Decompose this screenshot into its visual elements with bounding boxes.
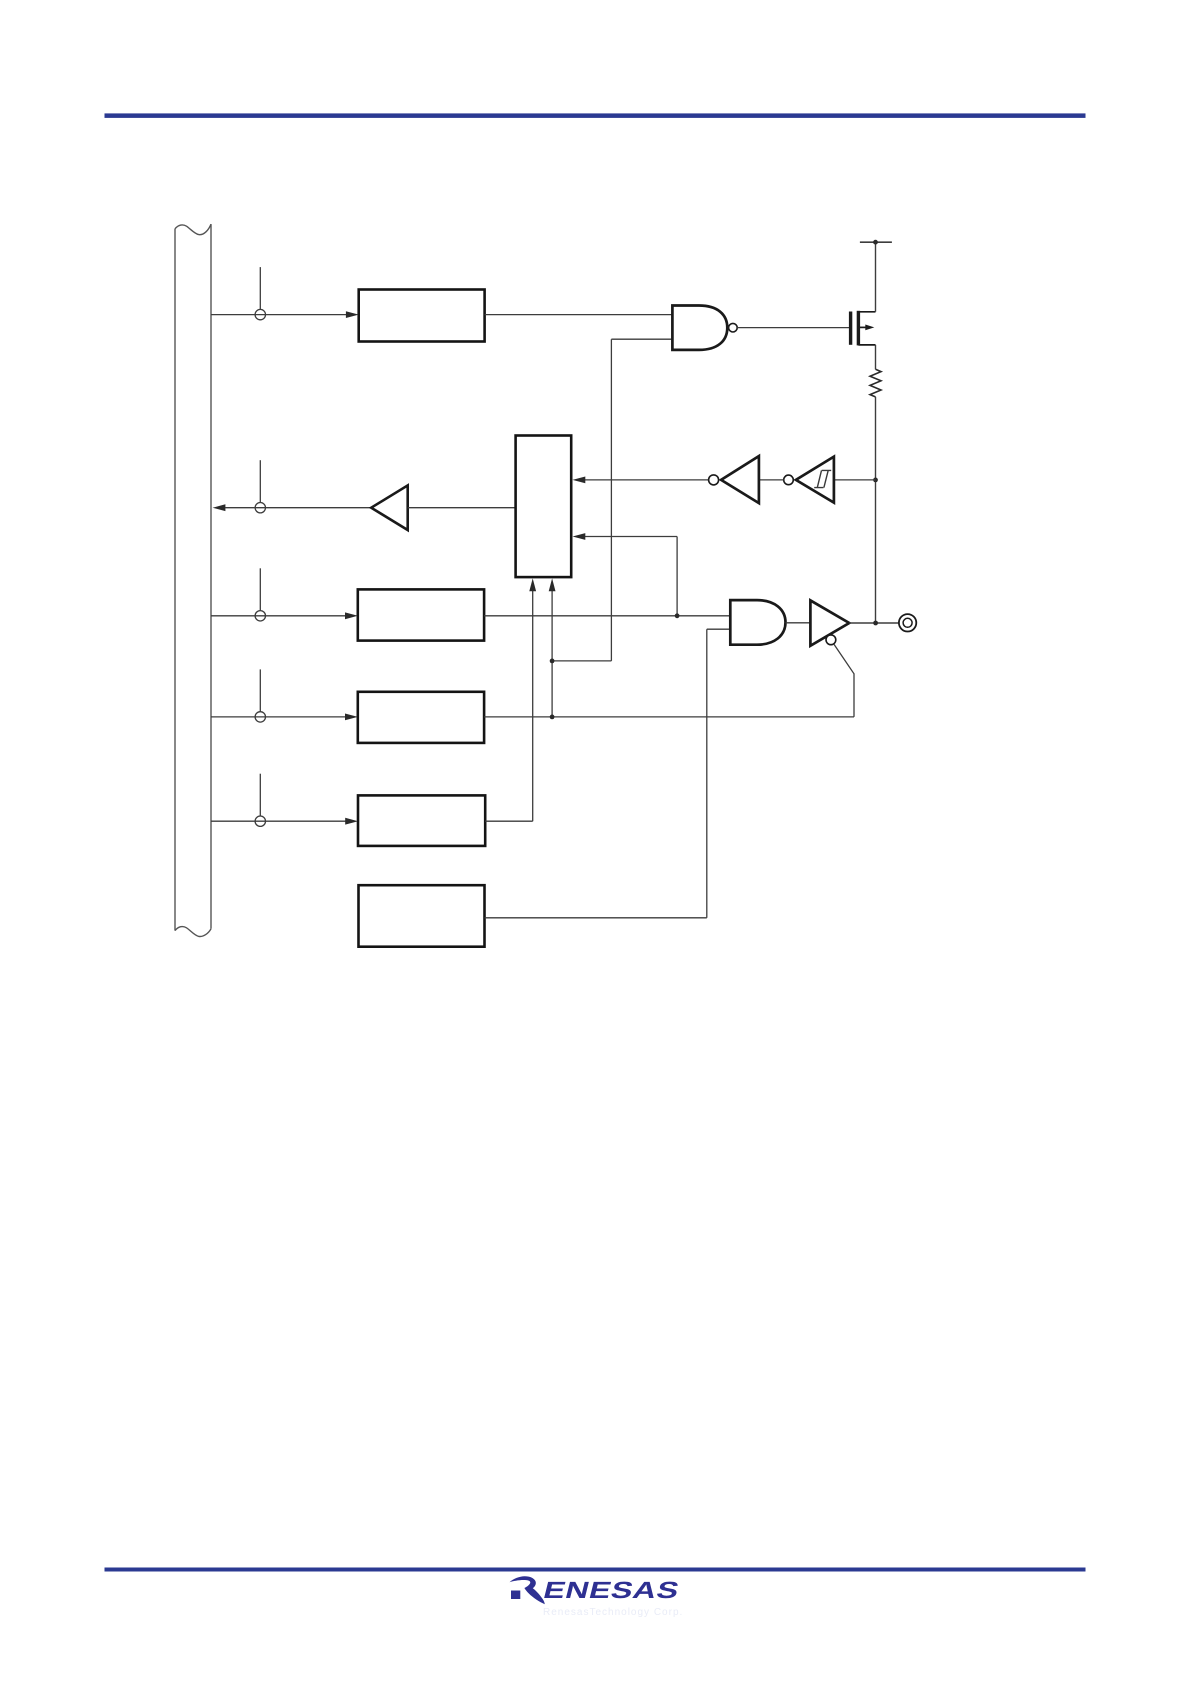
wire mux to read buffer xyxy=(408,507,516,509)
svg-text:ENESAS: ENESAS xyxy=(541,1578,683,1604)
wire NAND to MOSFET gate xyxy=(737,327,849,329)
inverter U4 xyxy=(721,456,759,503)
VCC rail xyxy=(860,241,892,243)
node row1 stub xyxy=(259,267,261,309)
box4 direction register xyxy=(358,692,484,743)
I/O pad pin xyxy=(899,614,916,631)
node row3 circle xyxy=(255,611,265,621)
wire box4 branch to NAND input 2 xyxy=(552,339,672,661)
node row5 stub xyxy=(259,774,261,816)
Renesas logo R square xyxy=(511,1591,520,1600)
wire bus to box4 xyxy=(211,716,345,718)
wire box6 to AND input 2 xyxy=(485,629,731,918)
output buffer U3 xyxy=(810,600,849,645)
wire box4 branch to mux bottom xyxy=(551,590,553,717)
footer rule xyxy=(105,1568,1086,1572)
wire schmitt to inverter xyxy=(759,479,784,481)
wire read buffer to bus xyxy=(225,507,371,509)
AND gate U2 xyxy=(730,600,785,645)
wire box4 output to enable corner xyxy=(484,716,854,718)
node row5 circle xyxy=(255,816,265,826)
wire node to schmitt input xyxy=(835,479,876,481)
node row2 circle xyxy=(255,503,265,513)
wire source to resistor xyxy=(875,345,877,369)
box5 function select register xyxy=(358,795,485,846)
wire bus to box5 xyxy=(211,820,346,822)
wire box3 to AND input 1 xyxy=(484,615,730,617)
node row1 circle xyxy=(255,309,265,319)
wire bus to box1 xyxy=(211,314,346,316)
box6 peripheral output xyxy=(359,885,485,947)
NAND gate U1 xyxy=(672,306,727,350)
node row3 stub xyxy=(259,568,261,610)
box1 pull-up control register xyxy=(359,290,485,342)
svg-text:RenesasTechnology Corp.: RenesasTechnology Corp. xyxy=(543,1607,683,1618)
node row2 stub xyxy=(259,460,261,502)
node row4 circle xyxy=(255,712,265,722)
read buffer U6 xyxy=(371,485,408,530)
wire input path to mux xyxy=(585,479,709,481)
wire bus to box3 xyxy=(211,615,345,617)
schmitt trigger U5 xyxy=(796,457,834,503)
Renesas logo R swoosh xyxy=(510,1576,545,1604)
wire drain to VCC xyxy=(875,242,877,312)
wire AND to output buffer xyxy=(786,622,811,624)
pull-up MOSFET Q1 xyxy=(851,311,876,346)
wire box5 to mux bottom xyxy=(485,590,533,821)
resistor R1 xyxy=(870,369,881,397)
node row4 stub xyxy=(259,669,261,711)
wire latch tap to mux xyxy=(585,537,678,616)
wire box1 to NAND input 1 xyxy=(485,314,673,316)
mux tall box xyxy=(516,436,572,578)
wire resistor to pad node xyxy=(875,397,877,623)
wire buffer to pad xyxy=(849,622,899,624)
data bus xyxy=(175,224,211,936)
wire enable diagonal xyxy=(834,644,854,717)
box3 port latch register xyxy=(358,589,484,640)
header rule xyxy=(105,113,1086,118)
